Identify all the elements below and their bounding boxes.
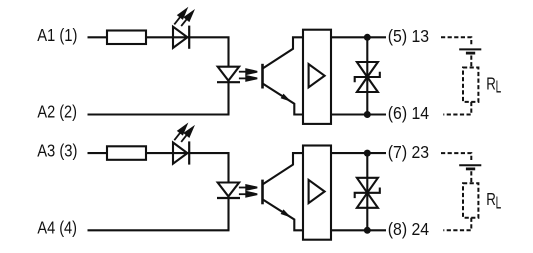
wire optocoupler LED cathode down to A4 (4) rail bbox=[227, 196, 229, 230]
junction node at terminal (6) 14 bbox=[364, 111, 371, 118]
svg-text:A2 (2): A2 (2) bbox=[37, 102, 77, 122]
svg-text:A1 (1): A1 (1) bbox=[37, 25, 77, 45]
svg-text:(8) 24: (8) 24 bbox=[388, 219, 430, 239]
load resistor RL (dashed) bbox=[463, 183, 478, 217]
wire resistor R2 to LED D2 and corner to optocoupler U2 bbox=[146, 153, 229, 182]
svg-text:L: L bbox=[496, 192, 502, 212]
wire A3 (3) to resistor R2 bbox=[88, 152, 108, 154]
wire rail A4 (4) bbox=[88, 229, 230, 231]
wire across suppressor diode V2 bbox=[366, 153, 368, 230]
output driver amplifier A2 (box) bbox=[303, 146, 331, 240]
wire optocoupler LED cathode down to A2 (2) rail bbox=[227, 81, 229, 115]
output driver amplifier A1 (box) bbox=[303, 30, 331, 124]
external supply battery (long plate) bbox=[459, 164, 481, 166]
light coupling arrows of optocoupler U2 bbox=[239, 185, 257, 197]
phototransistor Q2 of optocoupler U2 bbox=[263, 153, 304, 230]
junction node at terminal (7) 23 bbox=[364, 150, 371, 157]
wire amplifier to output terminal (6) 14 bbox=[331, 113, 386, 115]
resistor R2 (input series resistor) bbox=[107, 146, 146, 160]
svg-text:(7) 23: (7) 23 bbox=[388, 142, 429, 162]
light emission arrows of LED D1 bbox=[174, 9, 193, 26]
load resistor RL (dashed) bbox=[463, 68, 478, 102]
wire resistor R1 to LED D1 and corner to optocoupler U1 bbox=[146, 37, 229, 66]
junction node at terminal (5) 13 bbox=[364, 34, 371, 41]
light coupling arrows of optocoupler U1 bbox=[239, 69, 257, 81]
light emission arrows of LED D2 bbox=[174, 125, 193, 142]
wire amplifier to output terminal (8) 24 bbox=[331, 229, 386, 231]
status LED D2 (indicator) bbox=[173, 141, 189, 164]
dashed external load circuit wire to (6) 14 bbox=[443, 102, 471, 115]
svg-text:R: R bbox=[486, 189, 496, 209]
external supply battery (short plate) bbox=[466, 52, 475, 55]
phototransistor Q1 of optocoupler U1 bbox=[263, 37, 304, 114]
wire across suppressor diode V1 bbox=[366, 37, 368, 114]
dashed wire battery to load RL bbox=[470, 56, 472, 68]
svg-text:(6) 14: (6) 14 bbox=[388, 103, 430, 123]
dashed wire battery to load RL bbox=[470, 171, 472, 183]
wire amplifier to output terminal (7) 23 bbox=[331, 152, 386, 154]
dashed external load circuit wire from (7) 23 bbox=[441, 153, 471, 162]
dashed external load circuit wire from (5) 13 bbox=[441, 37, 471, 46]
bidirectional suppressor (TVS) diode V2 bbox=[355, 178, 380, 208]
wire amplifier to output terminal (5) 13 bbox=[331, 36, 386, 38]
optocoupler U2 emitter LED (cathode down) bbox=[217, 183, 240, 199]
svg-text:L: L bbox=[496, 77, 502, 97]
external supply battery (long plate) bbox=[459, 48, 481, 50]
dashed external load circuit wire to (8) 24 bbox=[443, 218, 471, 231]
svg-text:R: R bbox=[486, 73, 496, 93]
svg-text:A4 (4): A4 (4) bbox=[37, 218, 77, 238]
resistor R1 (input series resistor) bbox=[107, 31, 146, 45]
amplifier A2 triangle symbol bbox=[309, 180, 325, 203]
svg-text:A3 (3): A3 (3) bbox=[37, 141, 77, 161]
optocoupler U1 emitter LED (cathode down) bbox=[217, 67, 240, 83]
amplifier A1 triangle symbol bbox=[309, 64, 325, 87]
junction node at terminal (8) 24 bbox=[364, 227, 371, 234]
bidirectional suppressor (TVS) diode V1 bbox=[355, 62, 380, 92]
external supply battery (short plate) bbox=[466, 167, 475, 170]
wire rail A2 (2) bbox=[88, 113, 230, 115]
status LED D1 (indicator) bbox=[173, 26, 189, 49]
wire A1 (1) to resistor R1 bbox=[88, 36, 108, 38]
svg-text:(5) 13: (5) 13 bbox=[388, 26, 429, 46]
